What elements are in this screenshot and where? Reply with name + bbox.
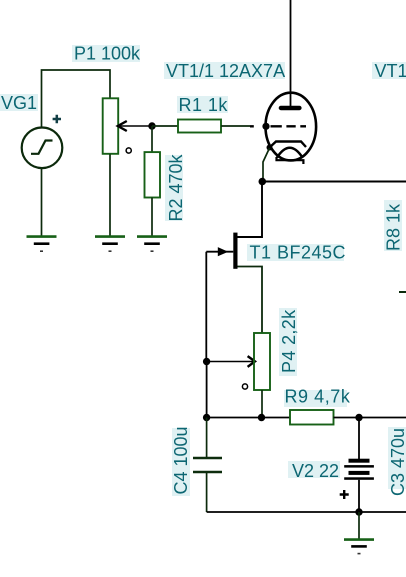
wire cathode lead down <box>263 148 270 182</box>
svg-text:T1 BF245C: T1 BF245C <box>250 243 347 263</box>
wire battery top lead <box>358 418 360 460</box>
wire gate down to wiper junction <box>205 252 207 362</box>
svg-text:R2 470k: R2 470k <box>166 153 186 221</box>
node R9/V2 junction <box>355 414 362 421</box>
svg-text:C4 100u: C4 100u <box>171 426 191 494</box>
svg-text:V2 22: V2 22 <box>292 461 339 481</box>
o marker of P1 <box>126 148 131 153</box>
node cathode junction <box>259 178 267 186</box>
ground (right) <box>344 540 374 554</box>
source VG1 <box>22 128 63 169</box>
wire VG1 bottom to ground <box>41 168 43 236</box>
resistor R9 <box>290 410 334 425</box>
resistor R2 <box>145 152 161 197</box>
wire bottom rail <box>207 511 406 513</box>
anode (plate) of VT1/1 <box>279 106 302 111</box>
svg-text:VT1/1 12AX7A: VT1/1 12AX7A <box>166 61 285 81</box>
wire gate junction down to C4 node <box>206 362 208 418</box>
plus sign of V2 <box>340 490 349 499</box>
gate arrow of T1 <box>206 247 233 256</box>
label C3 470u <box>388 427 406 496</box>
wire anode to top edge <box>290 0 292 106</box>
label R8 1k <box>384 200 404 251</box>
battery V2 <box>344 459 374 480</box>
label C4 100u <box>171 426 191 496</box>
o marker of P4 <box>242 384 247 389</box>
source lead of T1 <box>238 267 263 334</box>
wire junction to R1 left <box>152 125 178 127</box>
svg-text:P1 100k: P1 100k <box>74 44 141 64</box>
wire cathode junction to right edge (to R8) <box>262 181 406 183</box>
cathode of VT1/1 <box>267 142 307 151</box>
wire VG1 top to P1 top <box>42 70 111 128</box>
tube VT1/1 envelope <box>266 93 317 161</box>
svg-text:VT1: VT1 <box>375 61 406 81</box>
wire P4 bottom to R9 node <box>261 390 263 418</box>
wire R2 bottom to ground <box>151 198 153 237</box>
ground (R2) <box>137 237 167 252</box>
label R9 4,7k <box>284 387 351 408</box>
ground (P1) <box>95 237 125 252</box>
wire junction to R2 top <box>151 126 153 153</box>
label V2 22 <box>288 461 340 481</box>
wire battery bottom lead <box>358 480 360 512</box>
label P1 100k <box>72 44 141 64</box>
label P4 2,2k <box>279 308 299 376</box>
capacitor C4 <box>193 458 222 472</box>
label VG1 <box>0 93 38 113</box>
label R2 470k <box>165 153 186 221</box>
svg-text:P4 2,2k: P4 2,2k <box>279 309 299 373</box>
wire C4 top lead <box>206 418 208 459</box>
potentiometer P1 <box>103 98 119 154</box>
label VT1 (second tube, clipped) <box>372 61 406 81</box>
wire R8 bottom stub at right edge <box>399 291 406 293</box>
wiper arrow of P4 <box>207 356 255 367</box>
heater of VT1/1 <box>277 148 304 164</box>
plus sign of VG1 <box>53 115 61 123</box>
wire C4 bottom lead <box>206 472 208 512</box>
potentiometer P4 <box>254 333 270 390</box>
wire P1 bottom to ground <box>109 154 111 236</box>
node wiper/R2/R1 junction <box>148 122 155 129</box>
resistor R1 <box>178 120 221 133</box>
svg-text:R8 1k: R8 1k <box>384 203 404 251</box>
wire R1 right lead <box>221 125 250 127</box>
wire ground stem (right) <box>358 512 360 539</box>
wire C4 node to R9 left <box>207 417 290 419</box>
label R1 1k <box>177 95 228 115</box>
svg-text:C3 470u: C3 470u <box>388 428 406 496</box>
node P4 wiper junction <box>203 358 210 365</box>
wire cathode junction down to T1 drain <box>238 182 263 238</box>
wiper arrow of P1 <box>118 121 152 131</box>
grid of VT1/1 (dashed) <box>250 125 306 127</box>
wire R9 right to battery node and right edge <box>334 417 406 419</box>
node bottom rail / ground junction <box>355 508 362 515</box>
svg-text:VG1: VG1 <box>1 93 37 113</box>
ground (VG1) <box>27 237 57 252</box>
label T1 BF245C <box>247 243 346 263</box>
node P4/R9 junction <box>258 414 265 421</box>
transistor T1 channel bar <box>233 233 237 269</box>
svg-text:R1 1k: R1 1k <box>179 95 229 115</box>
label VT1/1 12AX7A <box>164 61 285 81</box>
svg-text:R9 4,7k: R9 4,7k <box>285 387 351 407</box>
node C4 top junction <box>203 414 210 421</box>
node grid junction on envelope <box>262 123 269 130</box>
